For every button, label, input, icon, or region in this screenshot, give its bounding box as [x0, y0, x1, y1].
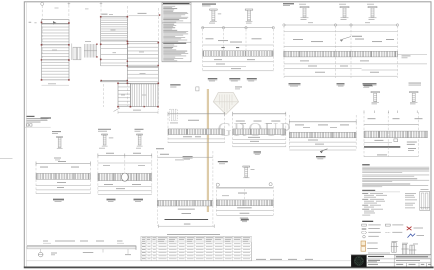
schedule mid text column	[405, 193, 417, 208]
bay1 rim band	[42, 20, 70, 25]
bay3 top dim	[129, 15, 160, 17]
sill extra labels below	[83, 251, 94, 254]
watermark gem logo	[213, 93, 238, 115]
block2 column labels	[299, 3, 374, 6]
stair dim text	[85, 40, 91, 43]
sill detail labels	[43, 240, 123, 243]
block1 titles	[208, 78, 257, 81]
tiny texts above plan	[55, 7, 59, 10]
legend rows column 1	[362, 224, 381, 238]
block1 grid line	[202, 27, 275, 29]
stud detail S2	[401, 243, 408, 256]
beam L1 title	[53, 199, 64, 202]
stud detail S3	[409, 244, 418, 256]
grid tick C	[100, 2, 103, 5]
highlighter tan line	[207, 89, 209, 212]
table outer frame	[141, 236, 251, 260]
beam L2	[98, 153, 152, 195]
bottom margin line left portion	[26, 260, 350, 262]
bay4 sparse joists	[127, 70, 158, 81]
right stack dashed verticals	[364, 112, 419, 157]
sill detail band	[27, 246, 136, 251]
title bottom row fields	[368, 263, 431, 266]
bay4 label	[140, 72, 146, 75]
notes paragraph 4	[362, 184, 428, 187]
schedule box diagram	[420, 189, 430, 210]
trim mark left edge	[0, 157, 13, 159]
legend blue symbol	[408, 234, 416, 238]
block2 dim texts and leader	[293, 36, 394, 42]
post detail D1	[52, 131, 63, 160]
title row 1	[368, 255, 431, 259]
beam M1	[168, 112, 225, 143]
schedule heading	[362, 190, 375, 191]
deck bottom dim	[118, 110, 158, 114]
grid dashed verticals	[42, 5, 158, 110]
right stack lower dims	[364, 140, 418, 157]
title block vertical dividers	[367, 254, 427, 266]
title strip top line	[351, 253, 431, 255]
bay2 bottom beam	[101, 80, 128, 82]
block1 dashed extension verticals	[203, 29, 274, 72]
block1 band top ticks	[221, 47, 239, 48]
beam L3	[156, 148, 214, 228]
notes heading	[362, 164, 370, 165]
beam L4 title	[241, 219, 249, 222]
post detail D3	[135, 129, 144, 149]
logo black square	[351, 255, 367, 267]
block2 lower dims	[284, 61, 427, 77]
bay1 bottom dim	[42, 83, 70, 85]
block2 titles	[289, 83, 422, 87]
bottom edge thick bar	[24, 267, 434, 269]
plan dim ticks left	[29, 21, 32, 24]
notes paragraph 1	[362, 167, 429, 173]
block1 lower dims	[203, 59, 274, 71]
block1 post detail P1	[209, 9, 221, 23]
beam M3	[289, 115, 356, 150]
notes paragraph 2	[362, 175, 429, 177]
beam L4 side texts	[240, 218, 248, 221]
plan red post markers	[41, 14, 161, 107]
sill detail dims	[43, 242, 51, 244]
beam L2 titles	[107, 199, 144, 202]
post detail D2	[98, 129, 113, 149]
bay2 corner tag	[102, 14, 114, 15]
title row separator 2	[367, 262, 431, 264]
table row lines	[141, 242, 251, 258]
beam M1 title	[160, 154, 193, 160]
block1 beam band	[203, 51, 274, 56]
stair flight left	[73, 47, 81, 60]
bay5 joists	[118, 83, 130, 106]
stud detail S1	[391, 241, 398, 252]
title row separator	[367, 258, 431, 260]
bay1 joists	[42, 24, 70, 80]
right stack upper line	[364, 124, 419, 126]
block2 beam band	[284, 51, 398, 57]
right stack post detail P7	[410, 92, 419, 105]
block2 right side annex	[398, 54, 428, 58]
right stack notch detail	[394, 139, 398, 142]
table header band	[141, 236, 251, 242]
title row 2	[368, 260, 420, 262]
note text right of diamond	[235, 87, 242, 90]
block2 dashed verticals	[284, 26, 398, 78]
beam M2 title	[254, 151, 262, 154]
notes paragraph 3	[362, 178, 429, 182]
legend tan box 2	[361, 247, 366, 252]
block1 upper dim line	[203, 44, 274, 46]
legend heading	[362, 221, 373, 222]
beam L1	[36, 161, 90, 194]
plan title under plan	[41, 117, 52, 120]
deck label right	[170, 84, 180, 87]
beam M3 leader arrow	[320, 149, 328, 153]
block2 label	[283, 3, 294, 6]
plan notes block bottom left	[25, 116, 51, 127]
small tag box	[196, 87, 199, 91]
stair flight right hatch	[84, 44, 97, 58]
dashed detail under deck	[170, 109, 178, 121]
schedule rows	[362, 193, 387, 215]
beam M3 title	[316, 156, 326, 159]
tiny note above title strip	[368, 252, 390, 255]
beam L4	[216, 161, 273, 215]
bay1 mid support lines	[42, 44, 70, 46]
block2 post detail P5	[368, 7, 377, 20]
stair zone left edge	[71, 44, 73, 61]
right stack grid ticks	[364, 111, 417, 114]
deck vertical joists	[114, 84, 159, 112]
bottom tiny text row	[256, 258, 313, 261]
right stack beam band	[364, 131, 428, 138]
block2 grid line	[283, 22, 399, 26]
bay2 joists upper	[101, 17, 128, 41]
block1 post detail P2	[245, 9, 253, 23]
sill detail callout circle	[38, 249, 57, 257]
bay2 sparse lower	[101, 44, 128, 66]
block2 post detail P3	[300, 7, 309, 20]
block2 upper dim line	[284, 46, 398, 48]
right stack post detail P6	[371, 92, 380, 105]
block1 dim texts	[206, 38, 262, 42]
bay2 tiny text	[113, 51, 117, 54]
table column lines	[146, 236, 242, 260]
legend rows column 2	[385, 224, 403, 233]
block2 post detail P4	[340, 7, 349, 20]
inner margin line left	[25, 2, 27, 267]
bay3 joists	[127, 41, 158, 66]
legend tan box 1	[361, 241, 366, 246]
table body text	[142, 243, 250, 259]
legend red X symbol	[407, 227, 412, 231]
grid bubble A	[41, 2, 44, 5]
bay centre labels	[52, 30, 147, 96]
right stack dim texts	[368, 117, 423, 120]
block2 plate lines	[284, 31, 398, 33]
grid tick B	[68, 2, 71, 5]
block1 label	[202, 4, 216, 7]
general notes box	[162, 2, 191, 61]
right stack label	[363, 85, 372, 88]
table title	[167, 233, 220, 236]
beam M2	[233, 112, 286, 147]
